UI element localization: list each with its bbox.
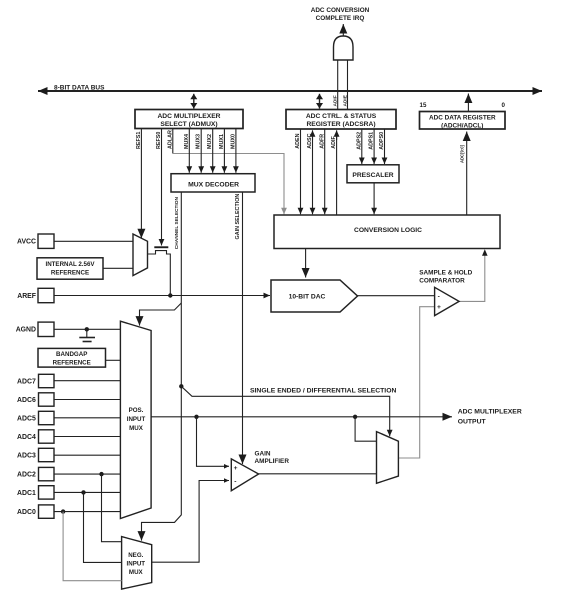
- svg-text:AMPLIFIER: AMPLIFIER: [255, 458, 290, 465]
- svg-text:ADIF: ADIF: [331, 136, 337, 149]
- svg-text:REFS0: REFS0: [156, 132, 162, 149]
- svg-text:8-BIT DATA BUS: 8-BIT DATA BUS: [54, 84, 105, 91]
- svg-text:ADC2: ADC2: [17, 472, 36, 479]
- svg-text:-: -: [438, 294, 440, 301]
- svg-text:MUX: MUX: [129, 569, 144, 576]
- svg-text:ADC4: ADC4: [17, 434, 36, 441]
- svg-text:ADIF: ADIF: [333, 95, 339, 106]
- svg-text:ADC[9:0]: ADC[9:0]: [460, 144, 465, 163]
- svg-text:INTERNAL 2.56V: INTERNAL 2.56V: [45, 261, 95, 268]
- svg-text:CONVERSION LOGIC: CONVERSION LOGIC: [354, 227, 422, 234]
- svg-text:10-BIT DAC: 10-BIT DAC: [289, 293, 326, 300]
- svg-text:POS.: POS.: [129, 407, 144, 414]
- svg-text:MUX: MUX: [129, 425, 144, 432]
- svg-text:ADPS2: ADPS2: [356, 132, 362, 150]
- svg-text:ADC7: ADC7: [17, 378, 36, 385]
- svg-text:(ADCH/ADCL): (ADCH/ADCL): [441, 122, 483, 129]
- svg-text:ADC CTRL. & STATUS: ADC CTRL. & STATUS: [306, 113, 377, 120]
- svg-text:ADC MULTIPLEXER: ADC MULTIPLEXER: [458, 409, 522, 416]
- svg-text:ADLAR: ADLAR: [168, 130, 174, 149]
- svg-text:+: +: [234, 465, 238, 472]
- svg-text:SINGLE ENDED / DIFFERENTIAL SE: SINGLE ENDED / DIFFERENTIAL SELECTION: [250, 387, 396, 394]
- svg-text:ADC0: ADC0: [17, 509, 36, 516]
- svg-text:ADC CONVERSION: ADC CONVERSION: [311, 7, 370, 14]
- svg-text:ADSC: ADSC: [307, 133, 313, 148]
- svg-text:REFERENCE: REFERENCE: [51, 270, 89, 277]
- svg-text:REGISTER (ADCSRA): REGISTER (ADCSRA): [306, 121, 375, 128]
- svg-text:15: 15: [420, 102, 427, 109]
- svg-text:ADC6: ADC6: [17, 397, 36, 404]
- svg-text:GAIN: GAIN: [255, 450, 271, 457]
- svg-text:ADPS0: ADPS0: [379, 132, 385, 150]
- svg-text:OUTPUT: OUTPUT: [458, 419, 487, 426]
- svg-text:ADC5: ADC5: [17, 415, 36, 422]
- svg-text:MUX3: MUX3: [196, 134, 202, 149]
- svg-text:NEG.: NEG.: [128, 552, 143, 559]
- svg-text:AGND: AGND: [16, 327, 36, 334]
- svg-text:MUX DECODER: MUX DECODER: [188, 182, 239, 189]
- svg-text:ADC MULTIPLEXER: ADC MULTIPLEXER: [157, 113, 220, 120]
- svg-text:MUX2: MUX2: [207, 134, 213, 149]
- svg-text:PRESCALER: PRESCALER: [352, 172, 393, 179]
- svg-text:INPUT: INPUT: [127, 560, 146, 567]
- svg-text:MUX0: MUX0: [230, 134, 236, 149]
- svg-text:0: 0: [502, 102, 506, 109]
- svg-text:CHANNEL SELECTION: CHANNEL SELECTION: [174, 197, 180, 250]
- svg-text:REFS1: REFS1: [136, 132, 142, 149]
- svg-text:ADC1: ADC1: [17, 490, 36, 497]
- svg-text:GAIN SELECTION: GAIN SELECTION: [235, 194, 241, 240]
- svg-text:-: -: [234, 478, 236, 485]
- svg-text:ADC3: ADC3: [17, 452, 36, 459]
- svg-text:SAMPLE & HOLD: SAMPLE & HOLD: [419, 269, 472, 276]
- svg-text:AREF: AREF: [17, 293, 36, 300]
- svg-text:SELECT (ADMUX): SELECT (ADMUX): [160, 121, 217, 128]
- svg-text:ADIE: ADIE: [342, 94, 348, 106]
- svg-text:BANDGAP: BANDGAP: [56, 351, 87, 358]
- svg-text:AVCC: AVCC: [17, 239, 36, 246]
- svg-text:INPUT: INPUT: [127, 416, 146, 423]
- svg-text:ADEN: ADEN: [295, 133, 301, 148]
- svg-text:COMPLETE IRQ: COMPLETE IRQ: [316, 15, 365, 22]
- svg-text:MUX1: MUX1: [219, 134, 225, 149]
- svg-text:+: +: [437, 304, 441, 311]
- svg-text:REFERENCE: REFERENCE: [53, 360, 91, 367]
- svg-text:ADPS1: ADPS1: [369, 132, 375, 150]
- svg-text:MUX4: MUX4: [184, 134, 190, 149]
- svg-text:ADC DATA REGISTER: ADC DATA REGISTER: [429, 114, 496, 121]
- svg-text:ADFR: ADFR: [320, 134, 326, 149]
- svg-text:COMPARATOR: COMPARATOR: [419, 277, 465, 284]
